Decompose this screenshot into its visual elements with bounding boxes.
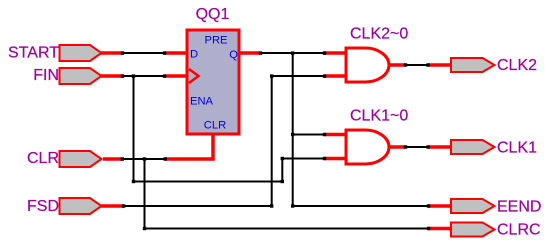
svg-text:CLRC: CLRC: [497, 222, 541, 239]
svg-text:QQ1: QQ1: [196, 6, 230, 23]
svg-text:CLK2: CLK2: [497, 57, 537, 74]
svg-text:CLK2~0: CLK2~0: [350, 26, 408, 43]
svg-text:START: START: [8, 45, 59, 62]
svg-text:FIN: FIN: [33, 67, 59, 84]
svg-text:D: D: [190, 49, 198, 61]
svg-text:ENA: ENA: [190, 95, 214, 107]
svg-text:CLR: CLR: [204, 120, 226, 132]
svg-text:Q: Q: [229, 49, 238, 61]
svg-text:PRE: PRE: [204, 35, 227, 47]
svg-text:CLK1: CLK1: [497, 140, 537, 157]
svg-text:CLK1~0: CLK1~0: [350, 108, 408, 125]
svg-text:EEND: EEND: [497, 199, 541, 216]
svg-text:FSD: FSD: [27, 198, 59, 215]
svg-text:CLR: CLR: [27, 150, 59, 167]
